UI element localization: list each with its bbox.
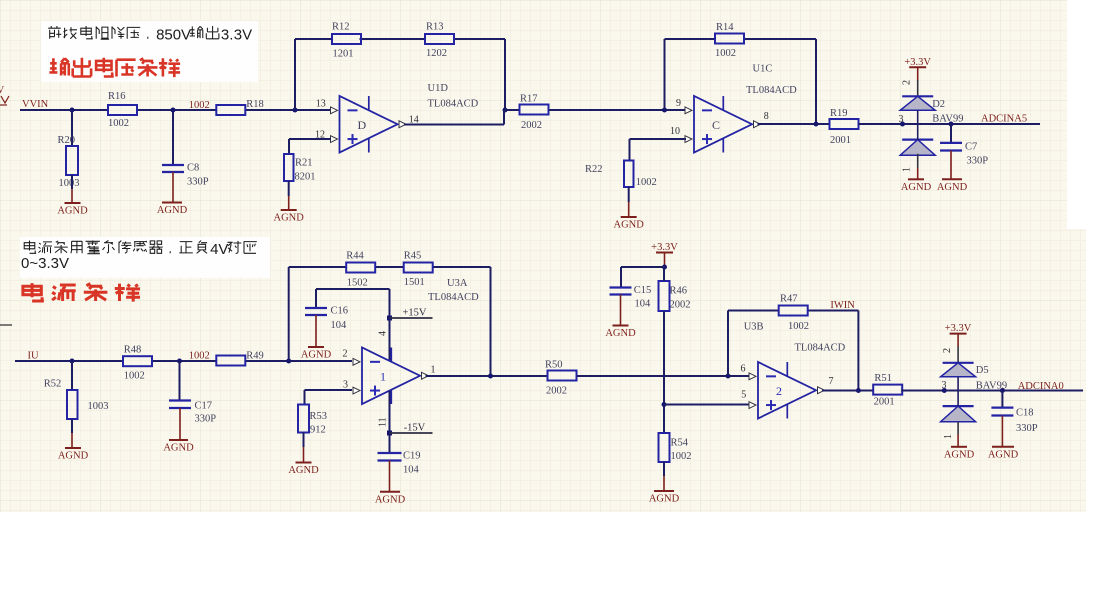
svg-text:R13: R13 xyxy=(426,22,444,33)
svg-text:1502: 1502 xyxy=(347,278,368,289)
svg-text:AGND: AGND xyxy=(614,220,645,231)
svg-text:+3.3V: +3.3V xyxy=(904,57,931,68)
svg-text:R20: R20 xyxy=(58,135,76,146)
svg-text:1003: 1003 xyxy=(88,401,109,412)
svg-text:330P: 330P xyxy=(967,156,989,167)
svg-text:-15V: -15V xyxy=(404,423,426,434)
svg-text:R53: R53 xyxy=(310,411,328,422)
svg-text:104: 104 xyxy=(331,320,348,331)
svg-text:3: 3 xyxy=(234,27,242,44)
svg-text:3: 3 xyxy=(343,380,348,391)
svg-text:AGND: AGND xyxy=(57,206,88,217)
svg-text:912: 912 xyxy=(310,425,326,436)
svg-text:1202: 1202 xyxy=(426,48,447,59)
svg-text:C8: C8 xyxy=(187,163,199,174)
svg-text:5: 5 xyxy=(741,390,746,401)
svg-text:11: 11 xyxy=(378,417,389,427)
svg-text:AGND: AGND xyxy=(937,182,968,193)
svg-text:V: V xyxy=(218,241,228,258)
svg-text:3: 3 xyxy=(221,27,229,44)
svg-text:ADCINA5: ADCINA5 xyxy=(981,114,1027,125)
svg-text:AGND: AGND xyxy=(157,205,188,216)
svg-text:IU: IU xyxy=(28,351,39,362)
svg-text:R22: R22 xyxy=(585,164,603,175)
svg-text:9: 9 xyxy=(676,98,681,109)
svg-text:330P: 330P xyxy=(187,177,209,188)
svg-text:AGND: AGND xyxy=(988,449,1019,460)
svg-text:C15: C15 xyxy=(634,285,652,296)
svg-text:IWIN: IWIN xyxy=(830,300,855,311)
svg-text:AGND: AGND xyxy=(301,350,332,361)
svg-text:AGND: AGND xyxy=(163,443,194,454)
svg-text:8201: 8201 xyxy=(295,172,316,183)
svg-text:1: 1 xyxy=(902,167,913,172)
svg-text:2002: 2002 xyxy=(670,300,691,311)
svg-text:0: 0 xyxy=(173,27,181,44)
svg-text:C19: C19 xyxy=(403,451,421,462)
svg-text:D5: D5 xyxy=(976,365,989,376)
svg-text:R47: R47 xyxy=(780,294,798,305)
svg-text:R18: R18 xyxy=(246,99,264,110)
svg-text:0~3.3V: 0~3.3V xyxy=(21,255,69,272)
svg-text:13: 13 xyxy=(316,99,326,110)
svg-text:R12: R12 xyxy=(332,22,350,33)
svg-text:104: 104 xyxy=(635,299,652,310)
svg-text:8: 8 xyxy=(156,27,164,44)
svg-text:R14: R14 xyxy=(716,22,734,33)
svg-text:R49: R49 xyxy=(246,351,264,362)
svg-text:U3B: U3B xyxy=(744,322,764,333)
svg-text:1: 1 xyxy=(431,365,436,376)
svg-text:C7: C7 xyxy=(965,142,977,153)
svg-text:8: 8 xyxy=(764,111,769,122)
svg-text:D2: D2 xyxy=(932,99,945,110)
svg-text:2: 2 xyxy=(343,349,348,360)
svg-text:R52: R52 xyxy=(44,379,62,390)
svg-text:AGND: AGND xyxy=(649,494,680,505)
svg-text:AGND: AGND xyxy=(274,213,305,224)
svg-text:2: 2 xyxy=(776,384,782,398)
svg-text:1002: 1002 xyxy=(715,48,736,59)
svg-text:U3A: U3A xyxy=(447,278,468,289)
svg-text:2002: 2002 xyxy=(546,386,567,397)
svg-text:5: 5 xyxy=(164,27,172,44)
svg-text:1002: 1002 xyxy=(671,451,692,462)
svg-text:C17: C17 xyxy=(195,401,213,412)
svg-text:2: 2 xyxy=(902,80,913,85)
svg-text:4: 4 xyxy=(210,241,218,258)
svg-text:3: 3 xyxy=(942,380,947,391)
svg-text:330P: 330P xyxy=(195,414,217,425)
svg-text:R45: R45 xyxy=(404,251,422,262)
svg-text:C16: C16 xyxy=(331,306,349,317)
svg-text:U1C: U1C xyxy=(753,64,773,75)
svg-text:1002: 1002 xyxy=(108,118,129,129)
svg-text:1002: 1002 xyxy=(189,100,210,111)
svg-text:TL084ACD: TL084ACD xyxy=(795,343,846,354)
svg-text:1: 1 xyxy=(380,369,386,383)
svg-text:10: 10 xyxy=(670,126,680,137)
svg-text:+15V: +15V xyxy=(403,308,427,319)
svg-text:V: V xyxy=(242,27,252,44)
svg-text:BAV99: BAV99 xyxy=(976,380,1007,391)
svg-text:R51: R51 xyxy=(874,373,892,384)
svg-text:VVIN: VVIN xyxy=(22,99,49,110)
svg-text:C: C xyxy=(712,118,720,132)
svg-text:AGND: AGND xyxy=(901,182,932,193)
svg-text:1002: 1002 xyxy=(189,351,210,362)
svg-text:TL084ACD: TL084ACD xyxy=(746,85,797,96)
svg-text:AGND: AGND xyxy=(288,465,319,476)
svg-text:R50: R50 xyxy=(545,360,563,371)
svg-text:3: 3 xyxy=(899,114,904,125)
svg-text:+3.3V: +3.3V xyxy=(651,242,678,253)
svg-text:R17: R17 xyxy=(520,94,538,105)
svg-text:ADCINA0: ADCINA0 xyxy=(1018,381,1064,392)
svg-text:7: 7 xyxy=(829,376,834,387)
svg-text:AGND: AGND xyxy=(375,494,406,505)
svg-text:BAV99: BAV99 xyxy=(932,113,963,124)
svg-text:330P: 330P xyxy=(1016,423,1038,434)
svg-text:4: 4 xyxy=(378,331,389,336)
svg-text:AGND: AGND xyxy=(605,328,636,339)
svg-text:AGND: AGND xyxy=(58,451,89,462)
svg-text:1002: 1002 xyxy=(124,371,145,382)
svg-text:V: V xyxy=(181,27,191,44)
svg-text:.: . xyxy=(229,27,233,44)
svg-text:U1D: U1D xyxy=(428,83,449,94)
svg-text:2002: 2002 xyxy=(521,120,542,131)
svg-text:2: 2 xyxy=(942,348,953,353)
svg-text:1002: 1002 xyxy=(636,177,657,188)
svg-text:R46: R46 xyxy=(670,286,688,297)
svg-text:D: D xyxy=(358,118,367,132)
svg-text:TL084ACD: TL084ACD xyxy=(428,292,479,303)
svg-text:1002: 1002 xyxy=(788,321,809,332)
svg-text:6: 6 xyxy=(741,364,746,375)
svg-text:2001: 2001 xyxy=(874,397,895,408)
svg-text:1501: 1501 xyxy=(404,277,425,288)
svg-text:2001: 2001 xyxy=(830,135,851,146)
svg-text:R48: R48 xyxy=(124,345,142,356)
svg-text:1201: 1201 xyxy=(333,49,354,60)
svg-text:104: 104 xyxy=(403,465,420,476)
svg-text:+3.3V: +3.3V xyxy=(945,323,972,334)
svg-text:C18: C18 xyxy=(1016,407,1034,418)
svg-text:R44: R44 xyxy=(346,251,364,262)
svg-text:TL084ACD: TL084ACD xyxy=(428,99,479,110)
svg-text:1: 1 xyxy=(943,434,954,439)
svg-text:AGND: AGND xyxy=(944,449,975,460)
svg-text:R54: R54 xyxy=(671,438,689,449)
svg-text:R21: R21 xyxy=(295,158,313,169)
svg-text:1003: 1003 xyxy=(59,178,80,189)
svg-text:R19: R19 xyxy=(830,108,848,119)
svg-text:R16: R16 xyxy=(108,91,126,102)
